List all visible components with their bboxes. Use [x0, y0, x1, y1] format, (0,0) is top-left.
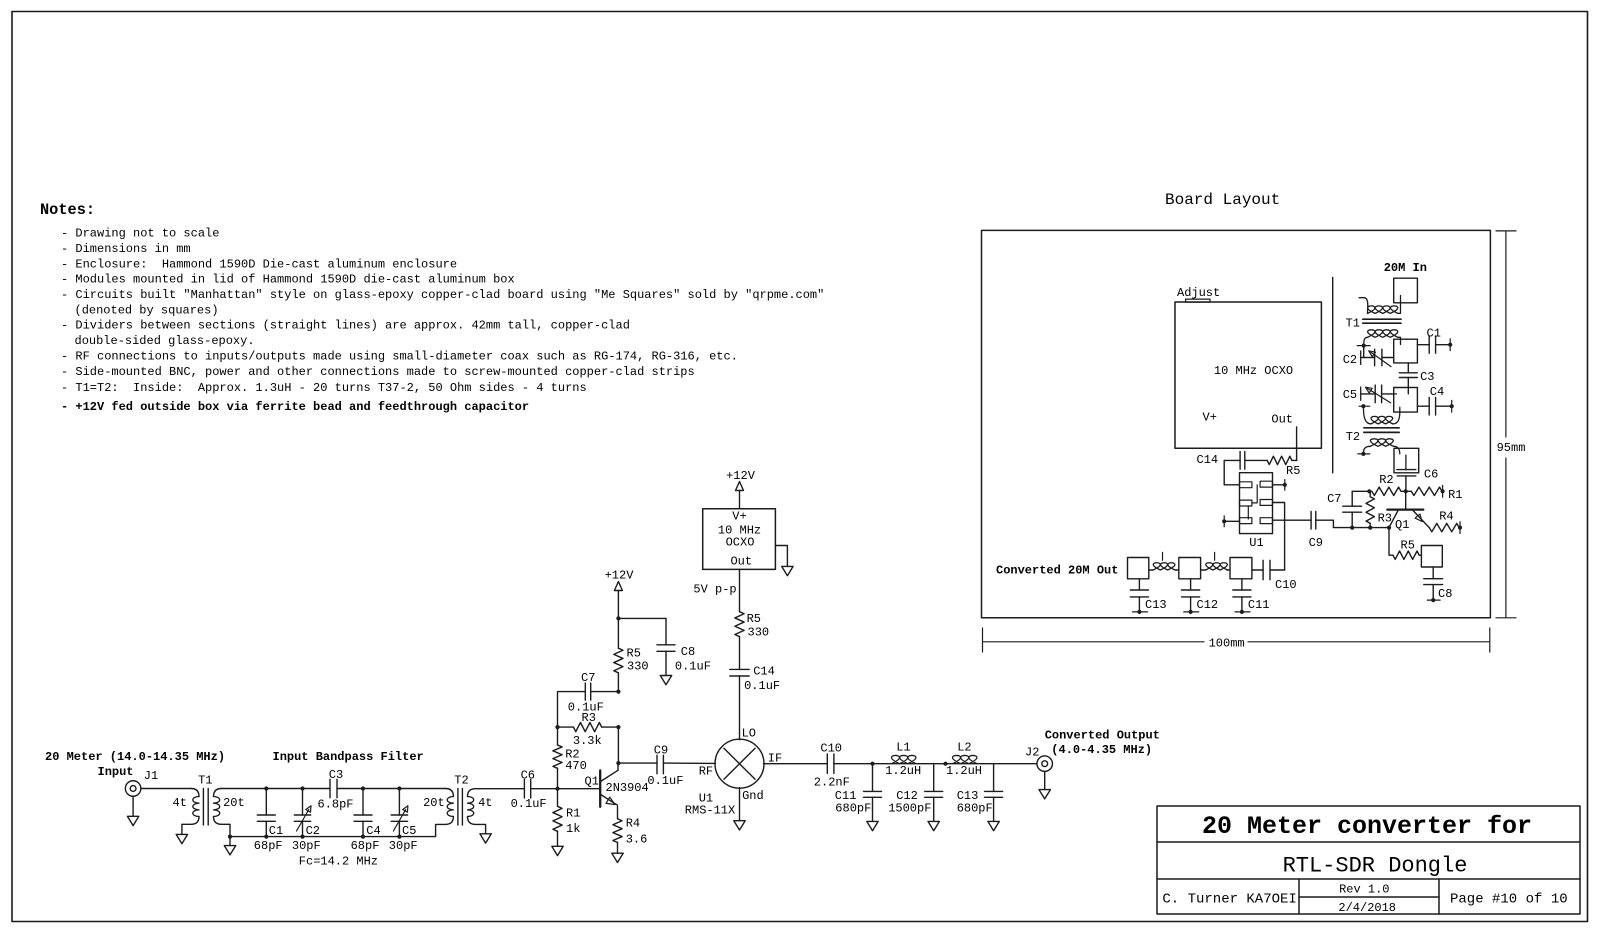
+12V arrow (OCXO) [736, 482, 744, 491]
board section divider [1332, 278, 1334, 473]
ground at mixer [739, 788, 741, 821]
title block vertical divider 1 [1298, 879, 1300, 914]
layout T2 upper terminal [1361, 404, 1365, 408]
board outline [982, 230, 1491, 617]
svg-text:Rev 1.0: Rev 1.0 [1339, 883, 1389, 897]
svg-text:C8: C8 [1438, 587, 1452, 601]
svg-text:C9: C9 [1309, 536, 1323, 550]
svg-text:C8: C8 [681, 645, 695, 659]
capacitor C10 [826, 754, 828, 773]
layout capacitor C12 [1190, 579, 1192, 590]
svg-text:330: 330 [748, 626, 770, 640]
svg-text:20 Meter converter for: 20 Meter converter for [1202, 812, 1532, 841]
svg-text:C4: C4 [1430, 385, 1444, 399]
svg-text:470: 470 [565, 759, 587, 773]
layout resistor R5 (output) [1389, 528, 1393, 556]
layout T1 secondary terminal [1362, 344, 1366, 348]
layout capacitor C6 [1405, 455, 1407, 470]
svg-text:- Side-mounted BNC, power and: - Side-mounted BNC, power and other conn… [61, 365, 695, 379]
inductor L2 [952, 755, 977, 763]
svg-text:R5: R5 [1401, 539, 1415, 553]
layout R4 terminal [1458, 526, 1462, 530]
svg-text:- Drawing not to scale: - Drawing not to scale [61, 227, 219, 241]
svg-text:L1: L1 [896, 741, 910, 755]
ground at T1 primary [176, 834, 187, 843]
svg-text:(denoted by squares): (denoted by squares) [75, 303, 219, 317]
ground at R4 [612, 853, 623, 862]
svg-text:R3: R3 [582, 711, 596, 725]
OCXO case ground wire [775, 546, 787, 567]
capacitor C12 [933, 764, 935, 792]
svg-text:0.1uF: 0.1uF [511, 797, 547, 811]
svg-text:C3: C3 [1420, 370, 1434, 384]
capacitor C8 [657, 644, 675, 646]
svg-text:10 MHz OCXO: 10 MHz OCXO [1214, 364, 1293, 378]
title block vertical divider 2 [1438, 879, 1440, 914]
wire C10 to J2 [834, 763, 1037, 765]
layout pad 3 [1394, 388, 1418, 413]
node: L2 input [943, 762, 947, 766]
svg-text:6.8pF: 6.8pF [318, 798, 354, 812]
svg-text:R1: R1 [566, 807, 580, 821]
wire +12V down to node [617, 591, 619, 619]
T1 core [202, 789, 204, 826]
svg-text:C11: C11 [1248, 598, 1270, 612]
svg-text:C12: C12 [1197, 598, 1219, 612]
layout T2 core [1364, 427, 1399, 429]
layout capacitor C3 [1407, 363, 1409, 373]
capacitor C9 [656, 755, 658, 774]
wire R5 to OCXO out [739, 569, 741, 611]
svg-text:R4: R4 [626, 817, 640, 831]
wire top rail left segment [222, 788, 331, 790]
svg-text:1k: 1k [566, 822, 580, 836]
layout output filter inductor (right) [1201, 569, 1206, 571]
svg-text:330: 330 [627, 660, 649, 674]
svg-text:R5: R5 [747, 612, 761, 626]
wire C14 to R5 [739, 637, 741, 670]
layout resistor R5 (oscillator) [1267, 456, 1292, 464]
transformer T2 secondary winding (4t) [468, 789, 476, 797]
transformer T2 primary winding (20t) [445, 789, 453, 797]
svg-text:Notes:: Notes: [40, 201, 95, 219]
svg-text:Board Layout: Board Layout [1165, 191, 1280, 209]
layout capacitor C1 [1417, 344, 1429, 346]
svg-text:V+: V+ [1203, 411, 1217, 425]
capacitor C7 [584, 683, 586, 700]
layout capacitor C10 [1252, 569, 1263, 571]
svg-text:4t: 4t [478, 796, 492, 810]
dimension 95mm [1496, 230, 1516, 232]
transformer T1 secondary winding (20t) [214, 789, 222, 797]
svg-text:C14: C14 [1197, 453, 1219, 467]
svg-text:680pF: 680pF [957, 802, 993, 816]
layout trimmer C2 [1363, 346, 1365, 358]
svg-text:68pF: 68pF [351, 839, 380, 853]
svg-text:C10: C10 [1275, 578, 1297, 592]
resistor R1 [557, 789, 559, 807]
T2 core [457, 789, 459, 826]
svg-text:U1: U1 [1249, 536, 1263, 550]
layout capacitor C8 [1432, 567, 1434, 579]
layout U1 pin MR [1260, 500, 1272, 506]
wire bottom rail [230, 824, 445, 836]
svg-text:- Modules mounted in lid of Ha: - Modules mounted in lid of Hammond 1590… [61, 273, 515, 287]
svg-text:Gnd: Gnd [742, 789, 764, 803]
svg-text:0.1uF: 0.1uF [647, 774, 683, 788]
wire mixer IF to C10 [764, 763, 828, 765]
junction T1 secondary to bottom rail [228, 835, 232, 839]
svg-text:Input: Input [98, 765, 134, 779]
svg-text:R3: R3 [1378, 511, 1392, 525]
svg-text:Fc=14.2 MHz: Fc=14.2 MHz [299, 855, 378, 869]
wire C6 to Q1 base [531, 788, 600, 790]
svg-text:R2: R2 [1379, 473, 1393, 487]
OCXO module outline [1175, 302, 1321, 448]
svg-text:680pF: 680pF [835, 802, 871, 816]
layout U1 pin BL [1240, 518, 1252, 524]
title block divider row2/row3 [1157, 878, 1580, 880]
wire top rail right segment [337, 788, 445, 790]
svg-text:- RF connections to inputs/out: - RF connections to inputs/outputs made … [61, 349, 738, 363]
svg-text:OCXO: OCXO [726, 536, 755, 550]
layout C14 wires [1245, 459, 1267, 461]
svg-text:5V p-p: 5V p-p [693, 583, 736, 597]
wire node to C8 [618, 617, 666, 619]
wire C7 right leg [592, 691, 619, 693]
svg-text:3.6: 3.6 [626, 833, 648, 847]
mixer X [724, 748, 755, 779]
layout C5 trimmer arrow [1367, 388, 1391, 403]
svg-text:1.2uH: 1.2uH [946, 764, 982, 778]
layout capacitor C9 [1310, 511, 1312, 529]
svg-text:R1: R1 [1448, 488, 1462, 502]
svg-text:3.3k: 3.3k [573, 734, 602, 748]
svg-text:C2: C2 [306, 824, 320, 838]
wire C9 to mixer RF [663, 762, 715, 764]
layout output filter inductor (left) [1149, 569, 1153, 571]
OCXO adjust tab [1186, 299, 1210, 302]
svg-text:4t: 4t [173, 796, 187, 810]
svg-text:1500pF: 1500pF [888, 802, 931, 816]
svg-text:Q1: Q1 [585, 775, 599, 789]
svg-text:C4: C4 [366, 824, 380, 838]
transformer T1 primary winding (4t) [191, 789, 199, 797]
svg-text:double-sided glass-epoxy.: double-sided glass-epoxy. [75, 334, 255, 348]
svg-text:- Dividers between sections (s: - Dividers between sections (straight li… [61, 319, 630, 333]
svg-text:30pF: 30pF [292, 839, 321, 853]
trimmer capacitor C5 [398, 789, 400, 816]
svg-text:J1: J1 [144, 769, 158, 783]
svg-text:Out: Out [1271, 413, 1293, 427]
svg-text:+12V: +12V [605, 569, 635, 583]
node: base/bias junction [555, 787, 559, 791]
layout C13 terminal [1137, 610, 1141, 614]
svg-text:- +12V fed outside box via fer: - +12V fed outside box via ferrite bead … [61, 400, 529, 414]
ground at OCXO case [782, 566, 793, 575]
mixer U1 circle [715, 739, 764, 788]
layout T1 core [1363, 318, 1401, 320]
inductor L1 [891, 755, 916, 763]
layout pad 20M In [1394, 278, 1418, 303]
svg-text:- Dimensions in mm: - Dimensions in mm [61, 242, 191, 256]
ground at T2 secondary [480, 834, 491, 843]
layout T2 lower winding [1363, 446, 1370, 454]
layout resistor R3 [1366, 497, 1374, 524]
wire collector to C9 [618, 762, 657, 764]
layout transistor Q1 [1387, 509, 1423, 511]
svg-text:T1: T1 [1346, 317, 1360, 331]
capacitor C6 [523, 779, 525, 798]
layout pad P3 [1230, 558, 1252, 579]
capacitor C14 [730, 668, 749, 670]
layout U1 pin TL [1240, 482, 1252, 488]
svg-text:0.1uF: 0.1uF [744, 679, 780, 693]
layout U1 BL pin wire and terminal [1224, 520, 1239, 522]
svg-text:C3: C3 [329, 768, 343, 782]
capacitor C11 [872, 764, 874, 792]
ground at C12 [928, 821, 939, 830]
svg-text:Input Bandpass Filter: Input Bandpass Filter [273, 750, 424, 764]
layout pad (R5 output) [1421, 546, 1442, 568]
svg-text:C5: C5 [1343, 388, 1357, 402]
resistor R4 [617, 807, 619, 819]
C5 trimmer arrow [393, 810, 405, 832]
layout C12 terminal [1189, 610, 1193, 614]
svg-text:95mm: 95mm [1497, 441, 1526, 455]
svg-text:T1: T1 [198, 774, 212, 788]
+12V arrow (amplifier) [614, 582, 622, 591]
layout capacitor C7 [1351, 512, 1353, 527]
svg-text:C1: C1 [269, 824, 283, 838]
title block rev/date divider [1299, 896, 1439, 898]
svg-text:J2: J2 [1025, 746, 1039, 760]
wire mixer LO up to C14 [739, 676, 741, 740]
svg-text:2/4/2018: 2/4/2018 [1338, 901, 1396, 915]
ground at R1 [552, 846, 563, 855]
Q1 emitter lead [601, 794, 617, 804]
svg-text:2N3904: 2N3904 [606, 781, 649, 795]
layout U1 TR pin wire and terminal [1273, 484, 1285, 486]
layout resistor R4 [1429, 523, 1459, 531]
svg-text:30pF: 30pF [389, 839, 418, 853]
node: C11 tap [870, 762, 874, 766]
svg-text:LO: LO [742, 727, 756, 741]
wire +12V to OCXO [739, 491, 741, 509]
svg-text:C14: C14 [753, 665, 775, 679]
svg-text:(4.0-4.35 MHz): (4.0-4.35 MHz) [1051, 743, 1152, 757]
wire collector rail [617, 727, 619, 763]
svg-text:- Enclosure: Hammond 1590D Di: - Enclosure: Hammond 1590D Die-cast alum… [61, 257, 457, 271]
layout C4 terminal [1450, 404, 1454, 408]
layout wire BR pin to C9 [1273, 519, 1312, 521]
svg-text:Converted Output: Converted Output [1045, 729, 1160, 743]
svg-text:20M In: 20M In [1384, 261, 1427, 275]
title block frame [1157, 806, 1580, 914]
layout C8 terminal [1431, 598, 1435, 602]
svg-text:C13: C13 [1145, 598, 1167, 612]
wire J1 to T1 [141, 788, 191, 790]
ground at C11 [867, 821, 878, 830]
node: R3/R2/C7 left junction [555, 725, 559, 729]
connector J1 (BNC) [125, 781, 141, 797]
layout C11 terminal [1240, 610, 1244, 614]
svg-text:Q1: Q1 [1395, 518, 1409, 532]
layout wire C9 to bias node [1316, 520, 1389, 527]
svg-text:T2: T2 [1346, 430, 1360, 444]
trimmer capacitor C2 [302, 789, 304, 816]
layout capacitor C4 [1417, 405, 1429, 407]
title block divider row1/row2 [1157, 841, 1580, 843]
transistor Q1 bar [599, 770, 601, 806]
svg-text:Converted 20M Out: Converted 20M Out [996, 564, 1118, 578]
svg-text:20t: 20t [423, 796, 445, 810]
svg-text:C6: C6 [1424, 468, 1438, 482]
svg-text:C. Turner KA7OEI: C. Turner KA7OEI [1162, 892, 1296, 908]
svg-text:C9: C9 [654, 743, 668, 757]
svg-text:C1: C1 [1427, 327, 1441, 341]
layout R1 terminal [1441, 489, 1445, 493]
resistor R2 [557, 727, 559, 745]
svg-text:Page #10 of 10: Page #10 of 10 [1450, 892, 1568, 908]
ground at J1 [132, 796, 134, 816]
layout pad 2 [1394, 339, 1418, 363]
svg-text:R4: R4 [1439, 510, 1453, 524]
capacitor C3 (series) [329, 779, 331, 797]
layout T1 secondary winding [1364, 337, 1368, 345]
layout U1 pin TR [1260, 481, 1272, 487]
svg-text:L2: L2 [957, 741, 971, 755]
wire C7 left leg [558, 692, 586, 728]
svg-text:C2: C2 [1343, 353, 1357, 367]
layout U1 pin BR [1260, 518, 1272, 524]
svg-text:+12V: +12V [726, 469, 756, 483]
layout capacitor C11 [1241, 579, 1243, 590]
svg-text:68pF: 68pF [254, 839, 283, 853]
layout resistor R1 [1411, 487, 1442, 495]
svg-text:0.1uF: 0.1uF [675, 660, 711, 674]
svg-text:R5: R5 [627, 647, 641, 661]
svg-text:C6: C6 [521, 769, 535, 783]
svg-text:T2: T2 [454, 774, 468, 788]
layout: OCXO out wire [1296, 427, 1298, 460]
layout node dots (bias) [1350, 526, 1354, 530]
connector J2 (BNC) [1037, 756, 1053, 772]
layout U1 internal wiring [1252, 485, 1257, 503]
svg-text:20 Meter (14.0-14.35 MHz): 20 Meter (14.0-14.35 MHz) [45, 750, 225, 764]
svg-text:2.2nF: 2.2nF [814, 776, 850, 790]
wire T2 to C6 [476, 788, 525, 790]
layout C1 terminal [1448, 343, 1452, 347]
layout C2 trimmer arrow [1371, 352, 1391, 366]
svg-text:- T1=T2: Inside: Approx. 1.3: - T1=T2: Inside: Approx. 1.3uH - 20 turn… [61, 381, 587, 395]
svg-text:RTL-SDR Dongle: RTL-SDR Dongle [1283, 854, 1468, 879]
layout node: collector [1404, 489, 1408, 493]
C2 trimmer arrow [297, 810, 309, 832]
svg-text:RF: RF [699, 765, 713, 779]
capacitor C4 [362, 789, 364, 816]
layout U1 pin ML [1240, 500, 1252, 506]
layout T2 upper winding [1363, 406, 1371, 424]
resistor R5 (oscillator) [735, 612, 744, 637]
svg-text:1.2uH: 1.2uH [885, 764, 921, 778]
ground at J2 [1044, 772, 1046, 790]
ground at C8 [665, 651, 667, 675]
node: collector [616, 761, 620, 765]
svg-text:20t: 20t [223, 796, 245, 810]
layout T1 primary winding [1359, 298, 1368, 314]
svg-text:R5: R5 [1286, 464, 1300, 478]
layout mixer U1 body [1240, 473, 1273, 534]
layout pad C6 [1394, 448, 1419, 473]
ground at C13 [988, 821, 999, 830]
layout wire MR pin to C10 [1273, 503, 1285, 571]
resistor R3 [558, 726, 574, 728]
layout trimmer C5 [1360, 387, 1362, 400]
Q1 collector lead [601, 770, 619, 781]
layout pad P1 (output) [1128, 558, 1149, 579]
svg-text:RMS-11X: RMS-11X [685, 804, 735, 818]
svg-text:C7: C7 [581, 671, 595, 685]
svg-text:C7: C7 [1327, 492, 1341, 506]
svg-text:- Circuits built "Manhattan" s: - Circuits built "Manhattan" style on gl… [61, 288, 824, 302]
capacitor C13 [993, 764, 995, 792]
resistor R5 (amplifier) [617, 618, 619, 648]
svg-text:C10: C10 [820, 742, 842, 756]
svg-text:Adjust: Adjust [1177, 286, 1220, 300]
layout capacitor C13 [1138, 579, 1140, 590]
svg-text:V+: V+ [732, 510, 746, 524]
layout resistor R2 [1372, 487, 1401, 495]
layout T2 lower terminal [1361, 452, 1365, 456]
dimension 100mm [982, 628, 984, 652]
layout pad P2 [1179, 558, 1201, 579]
svg-text:Out: Out [730, 555, 752, 569]
layout capacitor C14 [1239, 452, 1241, 470]
ground at bottom rail [229, 837, 231, 846]
OCXO box [703, 509, 776, 570]
svg-text:C5: C5 [402, 824, 416, 838]
node: C7/collector rail junctions [616, 690, 620, 694]
capacitor C1 [265, 789, 267, 816]
svg-text:100mm: 100mm [1209, 637, 1245, 651]
node: +12V distribution [616, 616, 620, 620]
